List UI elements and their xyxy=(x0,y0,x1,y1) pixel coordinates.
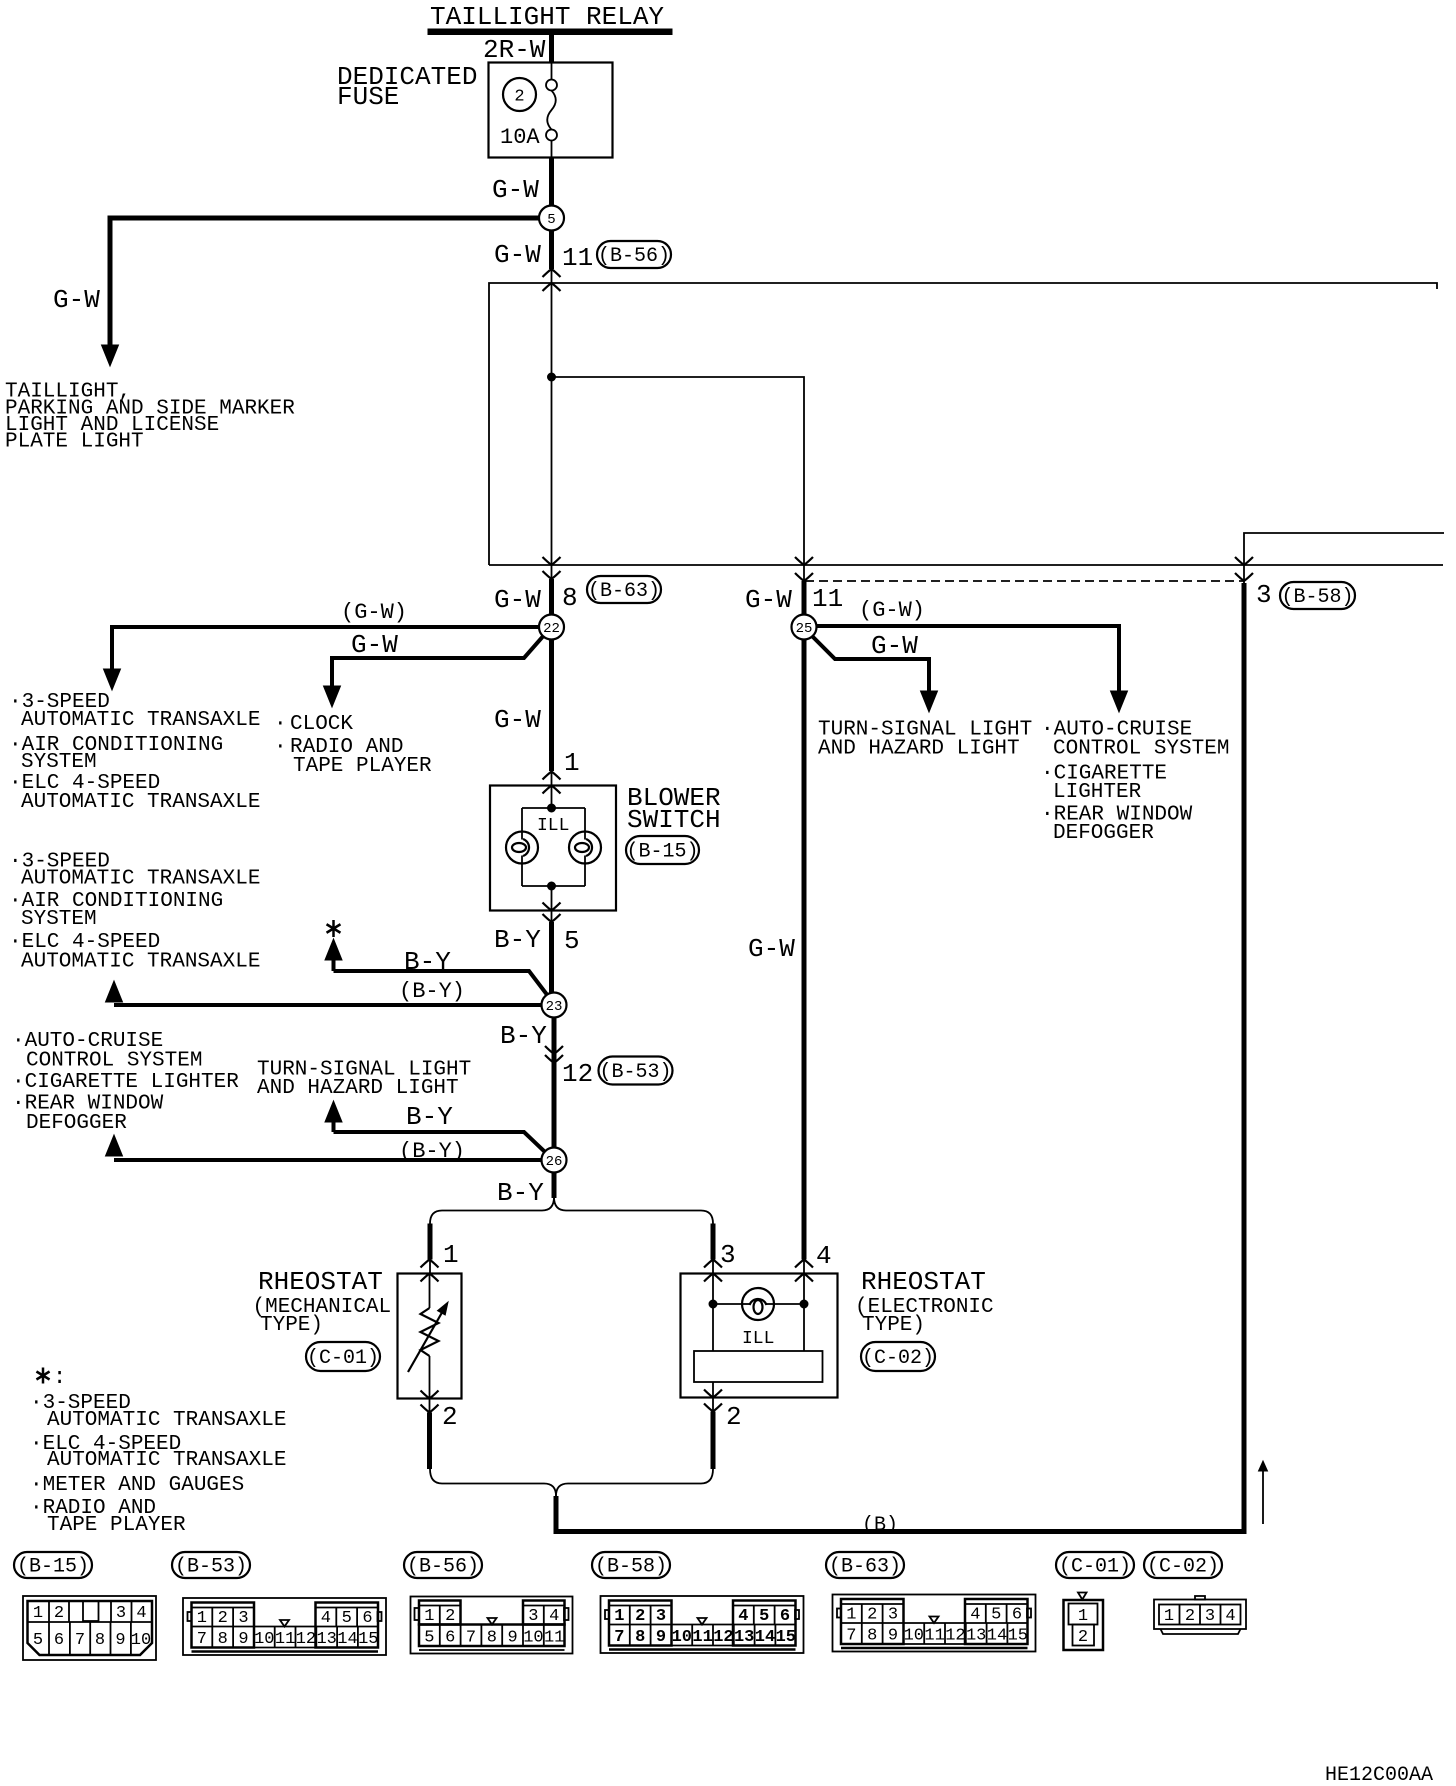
svg-text:(B): (B) xyxy=(862,1514,898,1537)
rheostat C-01 pin 1 chevrons xyxy=(421,1260,439,1268)
svg-text:AND HAZARD LIGHT: AND HAZARD LIGHT xyxy=(257,1077,459,1100)
svg-text:5: 5 xyxy=(33,1631,43,1650)
connector label B-56 xyxy=(597,241,671,268)
svg-text:1: 1 xyxy=(443,1240,459,1270)
svg-text:(B-56): (B-56) xyxy=(407,1556,479,1579)
rheostat mechanical box xyxy=(398,1274,462,1399)
svg-text:13: 13 xyxy=(316,1630,336,1649)
wire branch to right xyxy=(552,377,805,565)
connector label C-02 xyxy=(861,1342,935,1371)
wire into pin 4 xyxy=(803,1260,805,1274)
connector B-53 pinout xyxy=(183,1598,386,1655)
svg-text:(B-63): (B-63) xyxy=(829,1556,901,1579)
svg-text:14: 14 xyxy=(755,1628,775,1647)
junction dot xyxy=(548,373,556,381)
connector chevrons xyxy=(1235,557,1253,565)
svg-text:7: 7 xyxy=(75,1631,85,1650)
svg-text:B-Y: B-Y xyxy=(406,1102,453,1132)
svg-text:G-W: G-W xyxy=(494,240,541,270)
svg-text:SYSTEM: SYSTEM xyxy=(21,908,97,931)
connector B-15 pinout xyxy=(23,1596,156,1660)
branch B-Y wire xyxy=(334,971,549,996)
connector label (C-01) xyxy=(1056,1552,1134,1578)
svg-text:AUTOMATIC TRANSAXLE: AUTOMATIC TRANSAXLE xyxy=(21,709,260,732)
wire 2R-W from relay to fuse xyxy=(549,34,554,63)
svg-text:9: 9 xyxy=(656,1628,666,1647)
wire split brace xyxy=(430,1197,554,1224)
svg-text:10: 10 xyxy=(672,1628,692,1647)
svg-text:15: 15 xyxy=(1008,1627,1028,1646)
svg-text:SYSTEM: SYSTEM xyxy=(21,751,97,774)
svg-text:26: 26 xyxy=(546,1154,563,1170)
svg-text:3: 3 xyxy=(1256,580,1272,610)
svg-text:5: 5 xyxy=(564,926,580,956)
svg-text:CONTROL SYSTEM: CONTROL SYSTEM xyxy=(1053,738,1229,761)
svg-text:DEFOGGER: DEFOGGER xyxy=(26,1112,127,1135)
svg-text:G-W: G-W xyxy=(748,934,795,964)
svg-text:11: 11 xyxy=(275,1630,295,1649)
svg-text:(C-01): (C-01) xyxy=(307,1347,379,1370)
wire arrow up xyxy=(1262,1470,1264,1524)
connector label B-15 xyxy=(626,836,699,864)
svg-text:14: 14 xyxy=(987,1627,1007,1646)
svg-text:13: 13 xyxy=(734,1628,754,1647)
svg-text:2: 2 xyxy=(867,1606,877,1625)
wire B-Y between nodes 23 26 xyxy=(552,1017,557,1148)
svg-text:(B-58): (B-58) xyxy=(595,1556,667,1579)
svg-text:LIGHTER: LIGHTER xyxy=(1053,781,1142,804)
svg-text:3: 3 xyxy=(888,1606,898,1625)
svg-text:1: 1 xyxy=(1164,1607,1174,1626)
harness boundary bottom xyxy=(489,564,1443,566)
branch G-W to clock/radio xyxy=(332,634,545,686)
wire merge brace xyxy=(430,1469,556,1496)
wire G-W to connector B-56 xyxy=(549,218,554,269)
svg-text:AUTOMATIC TRANSAXLE: AUTOMATIC TRANSAXLE xyxy=(21,791,260,814)
svg-text:2: 2 xyxy=(1078,1628,1088,1647)
wire through pin 2 xyxy=(712,1398,714,1412)
svg-text:4: 4 xyxy=(738,1607,748,1626)
svg-text:G-W: G-W xyxy=(745,585,792,615)
svg-text:B-Y: B-Y xyxy=(404,947,451,977)
svg-text:(B-63): (B-63) xyxy=(588,580,660,603)
branch (B-Y) wire to transaxle xyxy=(114,1003,542,1007)
svg-text:G-W: G-W xyxy=(494,585,541,615)
svg-text:CLOCK: CLOCK xyxy=(290,713,353,736)
node 25 xyxy=(792,615,817,640)
svg-text:(B-53): (B-53) xyxy=(175,1556,247,1579)
svg-text:3: 3 xyxy=(238,1609,248,1628)
svg-text:8: 8 xyxy=(487,1629,497,1648)
asterisk note xyxy=(36,1368,49,1384)
svg-text:4: 4 xyxy=(816,1241,832,1271)
bus bar from TAILLIGHT RELAY xyxy=(428,29,672,35)
wire inside harness xyxy=(551,283,553,565)
connector label (C-02) xyxy=(1144,1552,1222,1578)
svg-text:G-W: G-W xyxy=(53,285,100,315)
svg-text:AND HAZARD LIGHT: AND HAZARD LIGHT xyxy=(818,738,1020,761)
svg-text:3: 3 xyxy=(1205,1607,1215,1626)
svg-text:(B-Y): (B-Y) xyxy=(399,1139,465,1164)
svg-text:9: 9 xyxy=(115,1631,125,1650)
svg-text:5: 5 xyxy=(547,212,555,228)
svg-text:(C-01): (C-01) xyxy=(1059,1556,1131,1579)
wire from pin 2 xyxy=(427,1413,432,1470)
wire to rheostat mechanical pin 1 xyxy=(428,1224,433,1260)
svg-text:RHEOSTAT: RHEOSTAT xyxy=(258,1267,383,1297)
svg-text:14: 14 xyxy=(337,1630,357,1649)
svg-text:2: 2 xyxy=(218,1609,228,1628)
svg-text:3: 3 xyxy=(116,1604,126,1623)
svg-text:10: 10 xyxy=(523,1629,543,1648)
svg-text:23: 23 xyxy=(546,999,563,1015)
svg-text:B-Y: B-Y xyxy=(497,1178,544,1208)
svg-text:7: 7 xyxy=(614,1628,624,1647)
svg-text:12: 12 xyxy=(296,1630,316,1649)
svg-text:6: 6 xyxy=(54,1631,64,1650)
svg-text:1: 1 xyxy=(846,1606,856,1625)
svg-text:8: 8 xyxy=(635,1628,645,1647)
wire through connector B-63 xyxy=(551,565,553,580)
svg-text:2R-W: 2R-W xyxy=(483,35,546,65)
svg-text:1: 1 xyxy=(424,1607,434,1626)
svg-text:B-Y: B-Y xyxy=(500,1021,547,1051)
branch B-Y wire xyxy=(334,1132,546,1152)
svg-text:DEFOGGER: DEFOGGER xyxy=(1053,822,1154,845)
svg-text:(B-15): (B-15) xyxy=(17,1556,89,1579)
svg-text:(B-Y): (B-Y) xyxy=(399,979,465,1004)
blower lamp right xyxy=(569,832,601,864)
svg-text::: : xyxy=(53,1365,66,1390)
node 26 xyxy=(542,1148,567,1173)
connector label (B-53) xyxy=(172,1552,250,1578)
blower lamp circuit wires xyxy=(551,786,553,809)
wire through connector B-56 xyxy=(551,269,553,283)
connector label (B-56) xyxy=(404,1552,482,1578)
svg-text:G-W: G-W xyxy=(492,175,539,205)
svg-text:TAILLIGHT RELAY: TAILLIGHT RELAY xyxy=(430,2,664,32)
svg-text:2: 2 xyxy=(445,1607,455,1626)
svg-text:RHEOSTAT: RHEOSTAT xyxy=(861,1267,986,1297)
rheostat electronic box xyxy=(681,1274,838,1398)
svg-text:(B-58): (B-58) xyxy=(1281,586,1353,609)
connector chevrons xyxy=(795,557,813,565)
svg-text:10: 10 xyxy=(904,1627,924,1646)
svg-text:4: 4 xyxy=(321,1609,331,1628)
svg-text:3: 3 xyxy=(656,1607,666,1626)
svg-text:11: 11 xyxy=(544,1629,564,1648)
svg-text:6: 6 xyxy=(362,1609,372,1628)
svg-text:G-W: G-W xyxy=(871,631,918,661)
svg-text:1: 1 xyxy=(33,1604,43,1623)
svg-text:15: 15 xyxy=(358,1630,378,1649)
connector label C-01 xyxy=(306,1342,380,1371)
wire out of blower switch xyxy=(551,911,553,923)
svg-text:12: 12 xyxy=(945,1627,965,1646)
svg-text:2: 2 xyxy=(442,1402,458,1432)
connector label (B-63) xyxy=(826,1552,904,1578)
svg-text:AUTOMATIC TRANSAXLE: AUTOMATIC TRANSAXLE xyxy=(47,1409,286,1432)
svg-text:2: 2 xyxy=(635,1607,645,1626)
svg-text:4: 4 xyxy=(970,1606,980,1625)
connector label B-58 xyxy=(1280,582,1355,609)
blower switch box xyxy=(490,786,616,911)
svg-text:6: 6 xyxy=(445,1629,455,1648)
variable resistor xyxy=(429,1274,431,1309)
branch (G-W) to transaxle/AC xyxy=(112,627,546,669)
wire from dashed line to node 25 xyxy=(802,581,807,616)
svg-text:AUTOMATIC TRANSAXLE: AUTOMATIC TRANSAXLE xyxy=(21,951,260,974)
wire B to B-58 xyxy=(556,583,1244,1532)
svg-text:(C-02): (C-02) xyxy=(862,1347,934,1370)
connector C-02 pinout xyxy=(1154,1600,1246,1630)
svg-text:7: 7 xyxy=(197,1630,207,1649)
svg-text:6: 6 xyxy=(780,1607,790,1626)
arrow to asterisk devices xyxy=(325,939,342,960)
svg-text:B-Y: B-Y xyxy=(494,925,541,955)
wire G-W node22 to blower xyxy=(549,639,554,771)
svg-text:11: 11 xyxy=(924,1627,944,1646)
svg-text:·: · xyxy=(274,736,287,759)
svg-text:G-W: G-W xyxy=(494,705,541,735)
svg-text:5: 5 xyxy=(759,1607,769,1626)
dashed boundary line xyxy=(805,580,1244,582)
harness branch line right xyxy=(1244,533,1444,565)
svg-text:11: 11 xyxy=(692,1628,712,1647)
svg-text:10A: 10A xyxy=(500,125,540,150)
fuse element xyxy=(551,63,553,80)
svg-text:PLATE LIGHT: PLATE LIGHT xyxy=(5,431,144,454)
wire G-W below fuse xyxy=(549,158,554,219)
svg-text:(B-15): (B-15) xyxy=(626,841,698,864)
blower lamp left xyxy=(506,832,538,864)
connector label B-63 xyxy=(587,576,661,603)
svg-text:2: 2 xyxy=(1185,1607,1195,1626)
arrow to taillight xyxy=(102,345,119,366)
svg-text:AUTOMATIC TRANSAXLE: AUTOMATIC TRANSAXLE xyxy=(47,1449,286,1472)
svg-text:12: 12 xyxy=(562,1059,593,1089)
harness boundary top xyxy=(489,283,1437,565)
wire from pin 2 xyxy=(711,1412,716,1470)
svg-text:2: 2 xyxy=(54,1604,64,1623)
svg-text:TYPE): TYPE) xyxy=(862,1314,925,1337)
svg-text:HE12C00AA: HE12C00AA xyxy=(1325,1764,1433,1786)
electronic rheostat lamp xyxy=(742,1288,774,1320)
svg-text:4: 4 xyxy=(1225,1607,1235,1626)
connector label (B-58) xyxy=(592,1552,670,1578)
svg-text:9: 9 xyxy=(888,1627,898,1646)
connector B-63 chevrons xyxy=(543,557,561,565)
connector C-01 pinout xyxy=(1078,1593,1087,1600)
svg-text:TYPE): TYPE) xyxy=(260,1314,323,1337)
svg-text:11: 11 xyxy=(562,243,593,273)
electronic rheostat internal wires xyxy=(712,1274,714,1352)
rheostat C-02 pin 3 chevrons xyxy=(704,1260,722,1268)
branch (B-Y) wire to rear window defogger xyxy=(114,1158,542,1162)
svg-text:11: 11 xyxy=(812,584,843,614)
svg-text:3: 3 xyxy=(720,1240,736,1270)
wire below module xyxy=(712,1382,714,1398)
svg-text:1: 1 xyxy=(197,1609,207,1628)
svg-text:10: 10 xyxy=(254,1630,274,1649)
svg-text:9: 9 xyxy=(507,1629,517,1648)
wire to rheostat electronic pin 3 xyxy=(711,1224,716,1260)
connector B-63 pinout xyxy=(833,1595,1036,1652)
connector B-56 pinout xyxy=(411,1597,573,1654)
dedicated fuse box xyxy=(489,63,613,158)
wire to taillight parking lights xyxy=(110,218,552,345)
svg-text:TAPE PLAYER: TAPE PLAYER xyxy=(293,755,432,778)
svg-text:8: 8 xyxy=(562,583,578,613)
asterisk mark xyxy=(327,920,341,937)
svg-text:FUSE: FUSE xyxy=(337,82,399,112)
svg-text:TAPE PLAYER: TAPE PLAYER xyxy=(47,1514,186,1537)
svg-text:SWITCH: SWITCH xyxy=(627,805,721,835)
svg-text:CONTROL SYSTEM: CONTROL SYSTEM xyxy=(26,1050,202,1073)
fuse number circle 2 xyxy=(503,78,536,111)
svg-text:1: 1 xyxy=(1078,1607,1088,1626)
node 5 xyxy=(539,206,564,231)
wire through connector pin 11 xyxy=(803,565,805,582)
svg-text:4: 4 xyxy=(136,1604,146,1623)
svg-text:(G-W): (G-W) xyxy=(859,598,925,623)
wire B-Y below node 26 xyxy=(552,1172,557,1198)
svg-text:(C-02): (C-02) xyxy=(1147,1556,1219,1579)
arrow to turn-signal xyxy=(325,1101,342,1122)
connector label B-53 xyxy=(599,1057,673,1085)
svg-text:ILL: ILL xyxy=(742,1329,774,1349)
svg-text:25: 25 xyxy=(796,621,813,637)
svg-text:8: 8 xyxy=(867,1627,877,1646)
svg-text:8: 8 xyxy=(95,1631,105,1650)
svg-text:·CIGARETTE LIGHTER: ·CIGARETTE LIGHTER xyxy=(12,1071,239,1094)
svg-text:4: 4 xyxy=(549,1607,559,1626)
connector B-56 chevrons xyxy=(543,269,561,277)
rheostat C-01 pin 2 chevrons xyxy=(421,1391,439,1399)
svg-text:(G-W): (G-W) xyxy=(341,600,407,625)
svg-text:12: 12 xyxy=(713,1628,733,1647)
node 23 xyxy=(542,993,567,1018)
blower pin 1 chevrons xyxy=(543,772,561,780)
inline connector B-53 chevrons xyxy=(545,1046,563,1054)
branch to auto-cruise etc xyxy=(810,626,1119,691)
connector B-58 pinout xyxy=(601,1596,804,1653)
wire to node 22 xyxy=(549,579,554,616)
wire through pin 2 xyxy=(429,1399,431,1413)
svg-text:2: 2 xyxy=(514,88,524,107)
svg-text:(B-56): (B-56) xyxy=(598,245,670,268)
blower pin 5 chevrons xyxy=(543,903,561,911)
rheostat C-02 pin 2 chevrons xyxy=(704,1390,722,1398)
rheostat C-02 pin 4 chevrons xyxy=(795,1260,813,1268)
svg-text:5: 5 xyxy=(991,1606,1001,1625)
wire G-W from node 25 to rheostat pin 4 xyxy=(802,639,807,1260)
svg-text:15: 15 xyxy=(776,1628,796,1647)
svg-text:·: · xyxy=(274,713,287,736)
svg-text:22: 22 xyxy=(543,621,560,637)
wire through connector B-58 xyxy=(1243,565,1245,584)
svg-text:6: 6 xyxy=(1012,1606,1022,1625)
svg-text:(B-53): (B-53) xyxy=(599,1061,671,1084)
svg-text:1: 1 xyxy=(614,1607,624,1626)
connector label (B-15) xyxy=(14,1552,92,1578)
wire into blower switch xyxy=(551,772,553,786)
svg-text:1: 1 xyxy=(564,748,580,778)
svg-text:·METER AND GAUGES: ·METER AND GAUGES xyxy=(30,1474,244,1497)
svg-text:2: 2 xyxy=(726,1402,742,1432)
svg-text:ILL: ILL xyxy=(537,816,569,836)
svg-text:5: 5 xyxy=(424,1629,434,1648)
svg-text:AUTOMATIC TRANSAXLE: AUTOMATIC TRANSAXLE xyxy=(21,868,260,891)
svg-text:9: 9 xyxy=(238,1630,248,1649)
wire B-Y below blower xyxy=(549,922,554,993)
branch to turn-signal xyxy=(811,635,929,691)
svg-text:8: 8 xyxy=(218,1630,228,1649)
svg-text:G-W: G-W xyxy=(351,630,398,660)
svg-text:7: 7 xyxy=(466,1629,476,1648)
svg-text:13: 13 xyxy=(966,1627,986,1646)
svg-text:7: 7 xyxy=(846,1627,856,1646)
svg-text:3: 3 xyxy=(528,1607,538,1626)
node 22 xyxy=(539,615,564,640)
electronic rheostat module xyxy=(694,1351,823,1382)
svg-text:10: 10 xyxy=(131,1631,151,1650)
svg-text:5: 5 xyxy=(342,1609,352,1628)
